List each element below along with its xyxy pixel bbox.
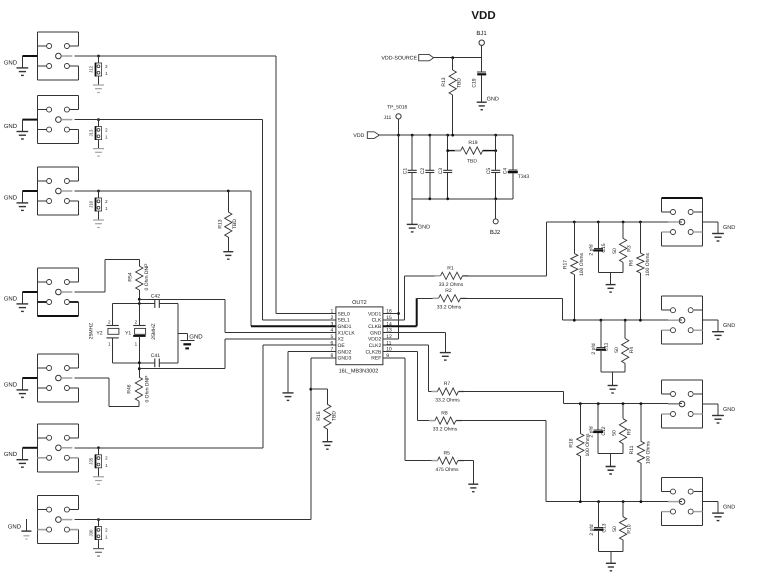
capacitor C2 [420,135,434,199]
crystal loop right edge [177,304,179,363]
svg-text:C15: C15 [601,243,607,252]
connector P7 [37,496,78,544]
node X2 rail to pin 5 [138,339,336,370]
svg-text:GND: GND [4,59,18,66]
IC U1 16L_MB3N3002 OUT2 [331,300,392,374]
resistor R19 TBD [446,140,497,164]
VDD power label [471,10,495,22]
ground below resistor R15 [322,442,332,450]
svg-text:BJ1: BJ1 [476,30,487,37]
svg-text:475 Ohms: 475 Ohms [435,467,459,473]
svg-text:C13: C13 [601,523,607,532]
ground at connector PR2 [703,320,736,339]
VDD distribution rail [379,134,513,137]
svg-text:GND: GND [189,334,203,341]
capacitor C3 [438,135,452,199]
svg-text:GND1: GND1 [338,324,352,330]
svg-text:TBD: TBD [332,411,338,421]
svg-text:2 pfd: 2 pfd [589,524,595,535]
wire connector P4 to resistor R54 [75,260,140,292]
svg-text:GND: GND [4,194,18,201]
net rail CLK2 [564,402,683,405]
ground at connector P6 [4,448,38,467]
connector PR4 [662,478,703,526]
resistor R6 100 Ohms [628,222,651,320]
svg-text:R5: R5 [443,450,450,456]
svg-text:R17: R17 [563,260,569,269]
capacitor C12 2 pfd [589,404,607,454]
capacitor C5 [486,135,500,199]
svg-text:R19: R19 [468,140,477,146]
svg-text:R10: R10 [627,524,633,533]
resistor R4 50 [614,320,635,372]
svg-text:GND: GND [723,505,735,511]
svg-text:R18: R18 [568,438,574,447]
capacitor C41 [151,353,160,367]
svg-text:TBD: TBD [457,78,463,88]
resistor R7 33.2 Ohms [383,345,564,404]
svg-text:R54: R54 [127,272,133,281]
svg-text:50: 50 [614,347,620,353]
svg-text:Y2: Y2 [96,330,102,336]
svg-text:C1: C1 [402,168,408,175]
svg-text:VDD2: VDD2 [368,337,382,343]
svg-text:X1/CLK: X1/CLK [338,330,356,336]
svg-text:R11: R11 [629,445,635,454]
svg-text:J10: J10 [89,200,94,208]
ground at connector P2 [4,120,38,139]
ground at connector P3 [4,191,38,210]
svg-text:GND2: GND2 [338,349,352,355]
svg-text:100 Ohms: 100 Ohms [645,441,651,465]
net rail CLKB [562,319,682,322]
ground at connector PR4 [703,502,736,521]
svg-text:CLKB: CLKB [368,324,382,330]
pin 13 GND wire to ground [383,333,451,361]
jumper J10 [89,190,109,228]
svg-text:GND3: GND3 [338,356,352,362]
svg-text:R13: R13 [441,77,447,86]
resistor R13 TBD at VDD source [441,56,463,135]
svg-text:2 pfd: 2 pfd [591,343,597,354]
svg-text:33.2 Ohms: 33.2 Ohms [433,427,458,433]
ground wire for C11 and R4 [601,372,625,393]
svg-text:R4: R4 [629,347,635,354]
VDD-SOURCE port flag [381,55,433,62]
svg-text:GND: GND [418,224,430,230]
VDD decoupling bottom rail [412,197,513,200]
connector P6 [37,424,78,472]
resistor R54 0 Ohm DNP [127,260,150,300]
svg-text:SEL1: SEL1 [338,318,350,324]
ground below resistor R5 [468,484,478,492]
svg-text:16L_MB3N3002: 16L_MB3N3002 [339,369,379,375]
svg-text:100 Ohms: 100 Ohms [579,252,585,276]
jumper J12 [89,55,109,93]
capacitor C4 T343 [502,135,529,199]
svg-text:CLK2B: CLK2B [365,349,382,355]
svg-text:C19: C19 [471,78,477,87]
wire VDD rail to VDD1/VDD2 pins [383,135,400,339]
svg-text:8: 8 [331,353,334,359]
capacitor C1 [402,135,416,199]
ground wire for C15 and R3 [598,273,623,292]
svg-text:GND: GND [4,123,18,130]
wire connector P1 to pin 1 SEL0 [75,56,336,314]
jumper J13 [89,118,109,156]
crystal Y1 [125,299,146,377]
svg-text:REF: REF [371,356,381,362]
svg-text:3: 3 [331,321,334,327]
wire connector P3 to pin 3 GND1 [75,191,336,326]
svg-text:50: 50 [612,248,618,254]
svg-text:J12: J12 [89,65,94,73]
connector P3 [37,167,78,215]
svg-text:J13: J13 [89,129,94,137]
svg-text:R2: R2 [445,288,452,294]
connector PR3 [662,380,703,428]
svg-text:R3: R3 [627,245,633,252]
svg-text:GND: GND [370,330,382,336]
svg-text:50: 50 [612,526,618,532]
svg-text:GND: GND [723,225,735,231]
test point TP_5016 J11 [384,105,408,136]
svg-text:25MHZ: 25MHZ [89,323,95,339]
connector P5 [37,354,78,402]
capacitor C19 [471,58,486,102]
ground at decoupling rail [407,199,430,232]
capacitor C42 [151,294,160,308]
svg-text:C4: C4 [502,168,508,175]
resistor R2 33.2 Ohms [383,288,563,326]
svg-text:C3: C3 [438,168,444,175]
crystal upper rail with capacitor C42 [113,302,178,305]
svg-text:0 Ohm DNP: 0 Ohm DNP [144,263,150,291]
svg-text:R9: R9 [627,429,633,436]
svg-text:TBD: TBD [232,219,238,229]
25MHZ label for Y1 [151,323,157,339]
svg-text:VDD1: VDD1 [368,311,382,317]
wire connector P2 to pin 2 SEL1 [75,120,336,320]
svg-text:C5: C5 [486,168,492,175]
resistor R8 33.2 Ohms [383,352,546,502]
connector P4 [37,268,78,316]
svg-text:C2: C2 [420,168,426,175]
svg-text:0 Ohm DNP: 0 Ohm DNP [145,375,151,403]
wire connector P7 to pin 8 GND3 [75,358,336,520]
ground at connector P4 [4,292,38,311]
svg-text:GND: GND [487,97,499,103]
ground flag at crystal loop [178,333,204,348]
svg-text:CLK2: CLK2 [369,343,382,349]
wire VDD-SOURCE to BJ1 [434,57,482,59]
pin 8 tee to resistor R15 [309,388,327,391]
svg-text:GND: GND [8,523,22,530]
jumper J35 [89,446,109,484]
net rail CLK2B [546,500,682,503]
ground at connector P7 [8,519,32,539]
svg-text:TP_5016: TP_5016 [387,105,408,111]
svg-text:GND: GND [4,295,18,302]
svg-text:6: 6 [331,340,334,346]
svg-text:4: 4 [331,328,334,334]
svg-text:GND: GND [723,323,735,329]
resistor R13 TBD on P3 net [218,190,239,252]
svg-text:50: 50 [612,430,618,436]
connector P2 [37,96,78,144]
ground at connector P5 [4,378,38,397]
ground at connector PR3 [703,404,736,423]
VDD port flag [353,132,379,139]
wire connector P6 to pin 6 OE [75,345,336,448]
svg-text:VDD-SOURCE: VDD-SOURCE [381,56,417,62]
ground below resistor R13 [223,252,233,260]
svg-text:33.2 Ohms: 33.2 Ohms [439,282,464,288]
svg-text:C12: C12 [601,426,607,435]
svg-text:C41: C41 [151,353,160,359]
test point BJ1 [476,30,487,58]
resistor R17 100 Ohms [563,222,586,320]
svg-text:C11: C11 [604,342,610,351]
svg-text:R13: R13 [218,219,224,228]
ground wire for C12 and R9 [598,453,623,474]
wire connector P5 to resistor R46 [75,378,139,406]
svg-text:BJ2: BJ2 [490,229,501,236]
svg-text:VDD: VDD [353,133,364,139]
svg-text:X2: X2 [338,337,344,343]
svg-text:R15: R15 [316,411,322,420]
svg-text:R7: R7 [444,381,451,387]
pin 7 GND2 wire to ground [283,352,336,401]
25MHZ label for Y2 [89,323,95,339]
svg-text:100 Ohms: 100 Ohms [645,252,651,276]
svg-text:GND: GND [723,407,735,413]
connector PR1 [662,198,703,246]
svg-text:25MHZ: 25MHZ [151,323,157,339]
svg-text:2 pfd: 2 pfd [589,244,595,255]
svg-text:33.2 Ohms: 33.2 Ohms [437,304,462,310]
resistor R10 50 [612,502,633,552]
capacitor C13 2 pfd [589,502,607,552]
svg-text:R1: R1 [447,266,454,272]
svg-text:C42: C42 [151,294,160,300]
ground wire for C13 and R10 [599,551,624,571]
svg-text:33.2 Ohms: 33.2 Ohms [435,398,460,404]
connector PR2 [662,296,703,344]
resistor R15 TBD [316,389,338,441]
crystal lower rail with capacitor C41 [113,361,178,364]
jumper J30 [89,518,109,556]
svg-text:VDD: VDD [471,10,495,22]
resistor R1 33.2 Ohms [383,222,547,320]
crystal Y2 [96,304,119,363]
svg-text:2 pfd: 2 pfd [589,426,595,437]
resistor R5 475 Ohms [383,358,473,484]
resistor R18 100 Ohms [568,404,591,502]
resistor R3 50 [612,222,633,273]
test point BJ2 [490,199,501,236]
svg-text:R6: R6 [628,260,634,267]
svg-text:SEL0: SEL0 [338,311,350,317]
net rail CLK [546,221,682,224]
ground at connector P1 [4,56,38,75]
ground below C19 [477,97,499,110]
svg-text:1: 1 [331,309,334,315]
svg-text:2: 2 [331,315,334,321]
connector P1 [37,32,78,80]
svg-text:J35: J35 [89,457,94,465]
resistor R46 0 Ohm DNP [127,375,151,407]
svg-text:OE: OE [338,343,346,349]
svg-text:J30: J30 [89,529,94,537]
svg-text:GND: GND [4,381,18,388]
svg-text:J11: J11 [384,115,392,121]
svg-text:R46: R46 [127,384,133,393]
ground at connector PR1 [703,222,736,241]
resistor R9 50 [612,404,633,454]
resistor R11 100 Ohms [629,404,652,502]
svg-text:OUT2: OUT2 [352,300,367,306]
svg-text:R8: R8 [441,410,448,416]
svg-text:5: 5 [331,334,334,340]
svg-text:Y1: Y1 [125,330,131,336]
svg-text:CLK: CLK [372,318,382,324]
svg-text:T343: T343 [518,174,530,180]
capacitor C15 2 pfd [589,222,607,273]
svg-text:GND: GND [4,451,18,458]
svg-text:TBD: TBD [467,159,477,165]
node X1 rail to pin 4 [138,298,336,333]
capacitor C11 2 pfd [591,320,609,372]
